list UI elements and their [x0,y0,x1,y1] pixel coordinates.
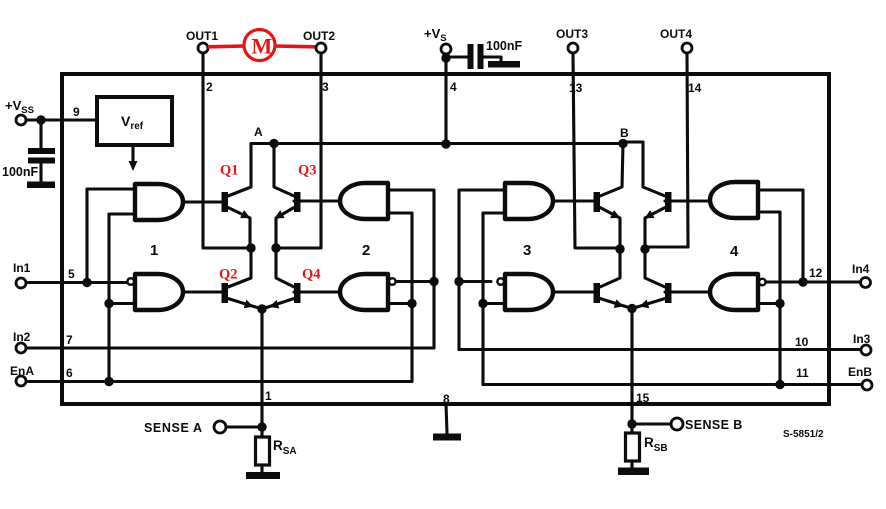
EnA wire [27,213,413,382]
transistor Q8 [632,249,672,311]
svg-text:4: 4 [730,243,739,260]
transistor Q5 [594,144,624,250]
svg-text:9: 9 [73,105,80,119]
svg-text:8: 8 [443,392,450,406]
capacitor C1 100nF [28,120,55,182]
svg-text:3: 3 [322,80,329,94]
gate 4 lower output wire [665,290,710,293]
svg-text:EnB: EnB [848,365,872,379]
svg-text:100nF: 100nF [486,39,522,53]
ground (pin 8) [433,434,461,441]
AND gate 3 lower (inverted input) [505,274,553,310]
gate 2 output wire [294,199,340,202]
voltage reference U1 Vref [97,97,172,145]
AND gate 1 upper [135,184,183,220]
pin 13 wire [573,54,618,249]
svg-text:100nF: 100nF [2,165,38,179]
In2 terminal (pin 7) [13,330,31,353]
Vref output arrow [129,145,138,171]
AND gate 4 upper [710,182,758,218]
svg-text:A: A [254,125,263,139]
sense A junction [257,422,266,431]
svg-text:In1: In1 [13,261,31,275]
ground (RSA) [246,472,280,479]
svg-text:7: 7 [66,333,73,347]
ground (C2) [488,61,520,68]
In1 junction [82,278,91,287]
svg-text:OUT2: OUT2 [303,29,335,43]
transistor Q4 [262,248,301,311]
EnA bus wire gate pair 1 [109,214,135,382]
EnB bus wire gate pair 3 [483,213,505,385]
emitter junction A [257,304,266,313]
In1 terminal (pin 5) [13,261,31,288]
pin 14 wire [647,54,688,248]
svg-text:15: 15 [636,391,650,405]
In3 terminal (pin 10) [853,332,871,355]
output node 3 junction [615,244,624,253]
svg-text:OUT4: OUT4 [660,27,692,41]
SENSE B terminal [632,418,743,432]
svg-text:1: 1 [150,242,158,259]
svg-text:Q2: Q2 [219,267,238,283]
EnA junction left [104,377,113,386]
In1 bus wire [87,189,135,283]
svg-text:Q3: Q3 [298,163,317,179]
In4 bus wire [758,190,803,282]
svg-text:SENSE A: SENSE A [144,421,203,435]
gate 2 lower input bubble [389,278,396,285]
gate 4 output wire [665,199,710,202]
EnA junction gate 2 lower [407,299,416,308]
transistor Q3 [272,144,300,249]
transistor Q7 [623,142,672,249]
gate 1 output wire [183,200,222,203]
SENSE A terminal [144,421,262,435]
svg-text:In3: In3 [853,332,871,346]
ground (C1) [27,182,55,189]
svg-text:OUT3: OUT3 [556,27,588,41]
svg-text:In4: In4 [852,262,870,276]
output node 1 junction [246,243,255,252]
node A [254,125,279,148]
sense B junction [627,419,636,428]
gate 1 lower output wire [183,290,222,293]
AND gate 1 lower (inverted input) [135,274,183,310]
capacitor C2 100nF [448,44,501,69]
In4 junction [798,277,807,286]
node B [618,126,629,148]
EnB junction gate pair 4 [775,380,784,389]
gate 3 output wire [553,199,594,202]
svg-text:3: 3 [523,242,531,259]
In3 junction at gate 3 lower bubble [454,277,463,286]
svg-text:Q4: Q4 [302,267,321,283]
svg-text:M: M [252,34,273,59]
output node 4 junction [640,244,649,253]
AND gate 3 upper [505,183,553,219]
EnB terminal (pin 11) [848,365,872,390]
pin 1 wire [260,309,263,427]
In3 wire [459,348,861,351]
OUT3 terminal (pin 13) [556,27,588,53]
transistor Q1 [222,144,275,249]
pin 3 wire [278,54,321,249]
transistor Q6 [594,249,633,311]
In2 wire [27,190,435,348]
In2 junction at gate 2 lower bubble [429,277,438,286]
EnB gate 4 lower input wire [758,302,780,305]
svg-text:4: 4 [450,80,457,94]
OUT2 terminal (pin 3) [303,29,335,53]
svg-text:11: 11 [796,366,809,380]
AND gate 2 lower (inverted input) [340,274,388,310]
IC boundary box [62,74,829,404]
resistor RSB [626,424,640,468]
In3 bus wire [459,190,505,350]
+Vs terminal (pin 4) [424,26,451,63]
EnA gate 2 lower input wire [388,302,412,305]
OUT1 terminal (pin 2) [186,29,218,53]
+Vss terminal (pin 9) [5,98,97,125]
svg-text:13: 13 [569,81,583,95]
EnB junction gate 4 lower [775,299,784,308]
svg-text:Q1: Q1 [220,163,239,179]
EnB junction gate 3 lower [478,299,487,308]
pin 4 junction on supply rail [441,139,450,148]
ground (RSB) [618,468,649,476]
pin 4 wire [444,55,447,145]
svg-text:5: 5 [68,267,75,281]
svg-text:SENSE B: SENSE B [685,418,743,432]
In3 bubble wire [459,280,491,283]
AND gate 4 lower (inverted input) [710,274,758,310]
svg-text:14: 14 [688,81,702,95]
EnB gate 3 lower input wire [483,302,505,305]
svg-text:12: 12 [809,266,823,280]
pin 15 wire [630,309,633,425]
In4 wire [767,280,860,283]
output node 2 junction [271,243,280,252]
svg-text:10: 10 [795,335,809,349]
svg-text:1: 1 [265,389,272,403]
svg-text:OUT1: OUT1 [186,29,218,43]
EnA terminal (pin 6) [10,364,34,386]
emitter junction B [627,304,636,313]
AND gate 2 upper [340,183,388,219]
EnB wire [483,383,862,386]
svg-text:2: 2 [362,242,370,259]
EnB bus wire gate pair 4 [758,212,780,385]
In2 bubble wire [397,280,434,283]
svg-text:6: 6 [66,366,73,380]
svg-text:2: 2 [206,80,213,94]
motor M (red) [208,30,316,61]
resistor RSA [256,427,270,473]
gate 1 lower input bubble [127,278,134,285]
OUT4 terminal (pin 14) [660,27,692,53]
EnA junction gate 1 lower [104,299,113,308]
svg-text:S-5851/2: S-5851/2 [783,429,824,440]
pin 8 ground wire [446,404,447,433]
pin 2 wire [203,54,249,249]
supply rail wire A to B [274,142,623,145]
gate 3 lower output wire [553,290,594,293]
In1 wire [27,281,127,284]
gate 3 lower input bubble [497,278,504,285]
EnA gate 1 lower input wire [109,302,135,305]
transistor Q2 [222,248,263,311]
svg-text:B: B [620,126,629,140]
In4 terminal (pin 12) [852,262,871,288]
gate 4 lower input bubble [759,279,766,286]
gate 2 lower output wire [294,290,340,293]
